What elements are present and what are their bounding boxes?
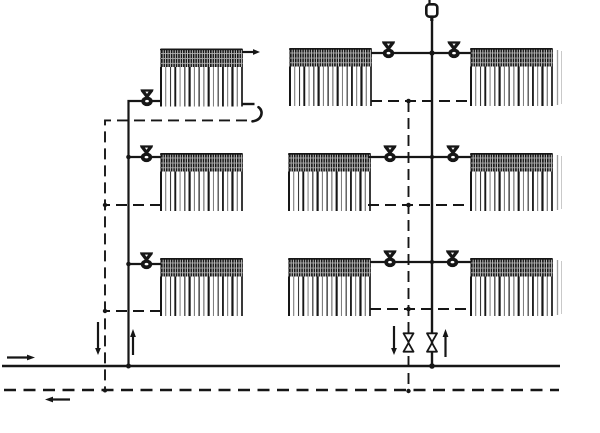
radiator left row3 xyxy=(161,258,243,316)
arrow return flow left xyxy=(53,398,70,400)
node supply main / left riser junction xyxy=(126,364,131,369)
radiator center row3 xyxy=(289,258,371,316)
wire row1 return branch (dashed) xyxy=(371,100,471,102)
valve on center return riser (vertical) xyxy=(404,333,414,342)
arrow up at left supply riser xyxy=(132,337,134,355)
wire faint ghost section edge right xyxy=(557,50,559,105)
wire left row1 return stub and hook xyxy=(242,103,255,105)
radiator right row1 xyxy=(471,48,553,106)
arrow down at center return riser xyxy=(393,326,395,348)
wire left row2 supply branch xyxy=(129,156,162,158)
wire air outlet stub with arrow at radiator left row1 xyxy=(242,51,253,53)
air vent U1 at top of supply riser xyxy=(428,0,430,5)
node row1 supply riser junction xyxy=(429,50,434,55)
wire left return riser (dashed) with top bend xyxy=(105,120,247,390)
arrow supply flow right xyxy=(7,356,27,358)
wire faint ghost section edge right xyxy=(557,260,559,315)
node left row2 return junction xyxy=(103,203,107,207)
valve right row2 xyxy=(446,145,459,153)
wire center return riser (dashed vertical) xyxy=(408,101,410,391)
radiator left row1 xyxy=(161,49,243,107)
wire row2 return branch (dashed) xyxy=(368,204,471,206)
node row1 return riser junction xyxy=(406,99,411,104)
radiator right row2 xyxy=(471,153,553,211)
arrow down at left return riser xyxy=(97,322,99,348)
wire left supply riser (solid) with top bend to radiator xyxy=(129,101,162,366)
valve center row3 xyxy=(383,250,396,258)
wire faint ghost section edge right xyxy=(557,155,559,210)
node left row2 supply junction xyxy=(126,155,131,160)
wire left row3 supply branch xyxy=(129,263,162,265)
wire left row3 return branch (dashed) xyxy=(105,310,161,312)
valve center row1 xyxy=(382,41,395,49)
node row3 supply riser junction xyxy=(430,260,434,264)
wire return main (dashed horizontal) xyxy=(4,389,559,391)
wire row3 supply branch xyxy=(370,261,471,263)
valve left row1 xyxy=(140,89,153,97)
wire row2 supply branch xyxy=(368,156,471,158)
radiator center row2 xyxy=(289,153,371,211)
radiator center row1 xyxy=(290,48,372,106)
node left row3 return junction xyxy=(103,309,107,313)
wire row3 return branch (dashed) xyxy=(370,308,471,310)
valve right row1 xyxy=(447,41,460,49)
node row3 return riser junction xyxy=(406,307,411,312)
radiator left row2 xyxy=(161,153,243,211)
node return main / center return riser junction xyxy=(406,389,410,393)
node left row3 supply junction xyxy=(126,262,131,267)
valve center row2 xyxy=(383,145,396,153)
wire supply main (solid horizontal) xyxy=(2,365,560,368)
valve left row3 xyxy=(140,252,153,260)
wire left row2 return branch (dashed) xyxy=(105,204,161,206)
arrow up at center supply riser xyxy=(444,337,446,357)
valve left row2 xyxy=(140,145,153,153)
node return main / left return riser junction xyxy=(103,389,107,393)
valve right row3 xyxy=(446,250,459,258)
radiator right row3 xyxy=(471,258,553,316)
wire row1 supply branch xyxy=(371,52,471,54)
node row2 supply riser junction xyxy=(430,155,434,159)
node row2 return riser junction xyxy=(406,203,411,208)
valve on center supply riser (vertical) xyxy=(427,333,437,342)
node supply main / center riser junction xyxy=(429,363,435,369)
wire center supply riser (solid vertical) xyxy=(431,20,433,367)
